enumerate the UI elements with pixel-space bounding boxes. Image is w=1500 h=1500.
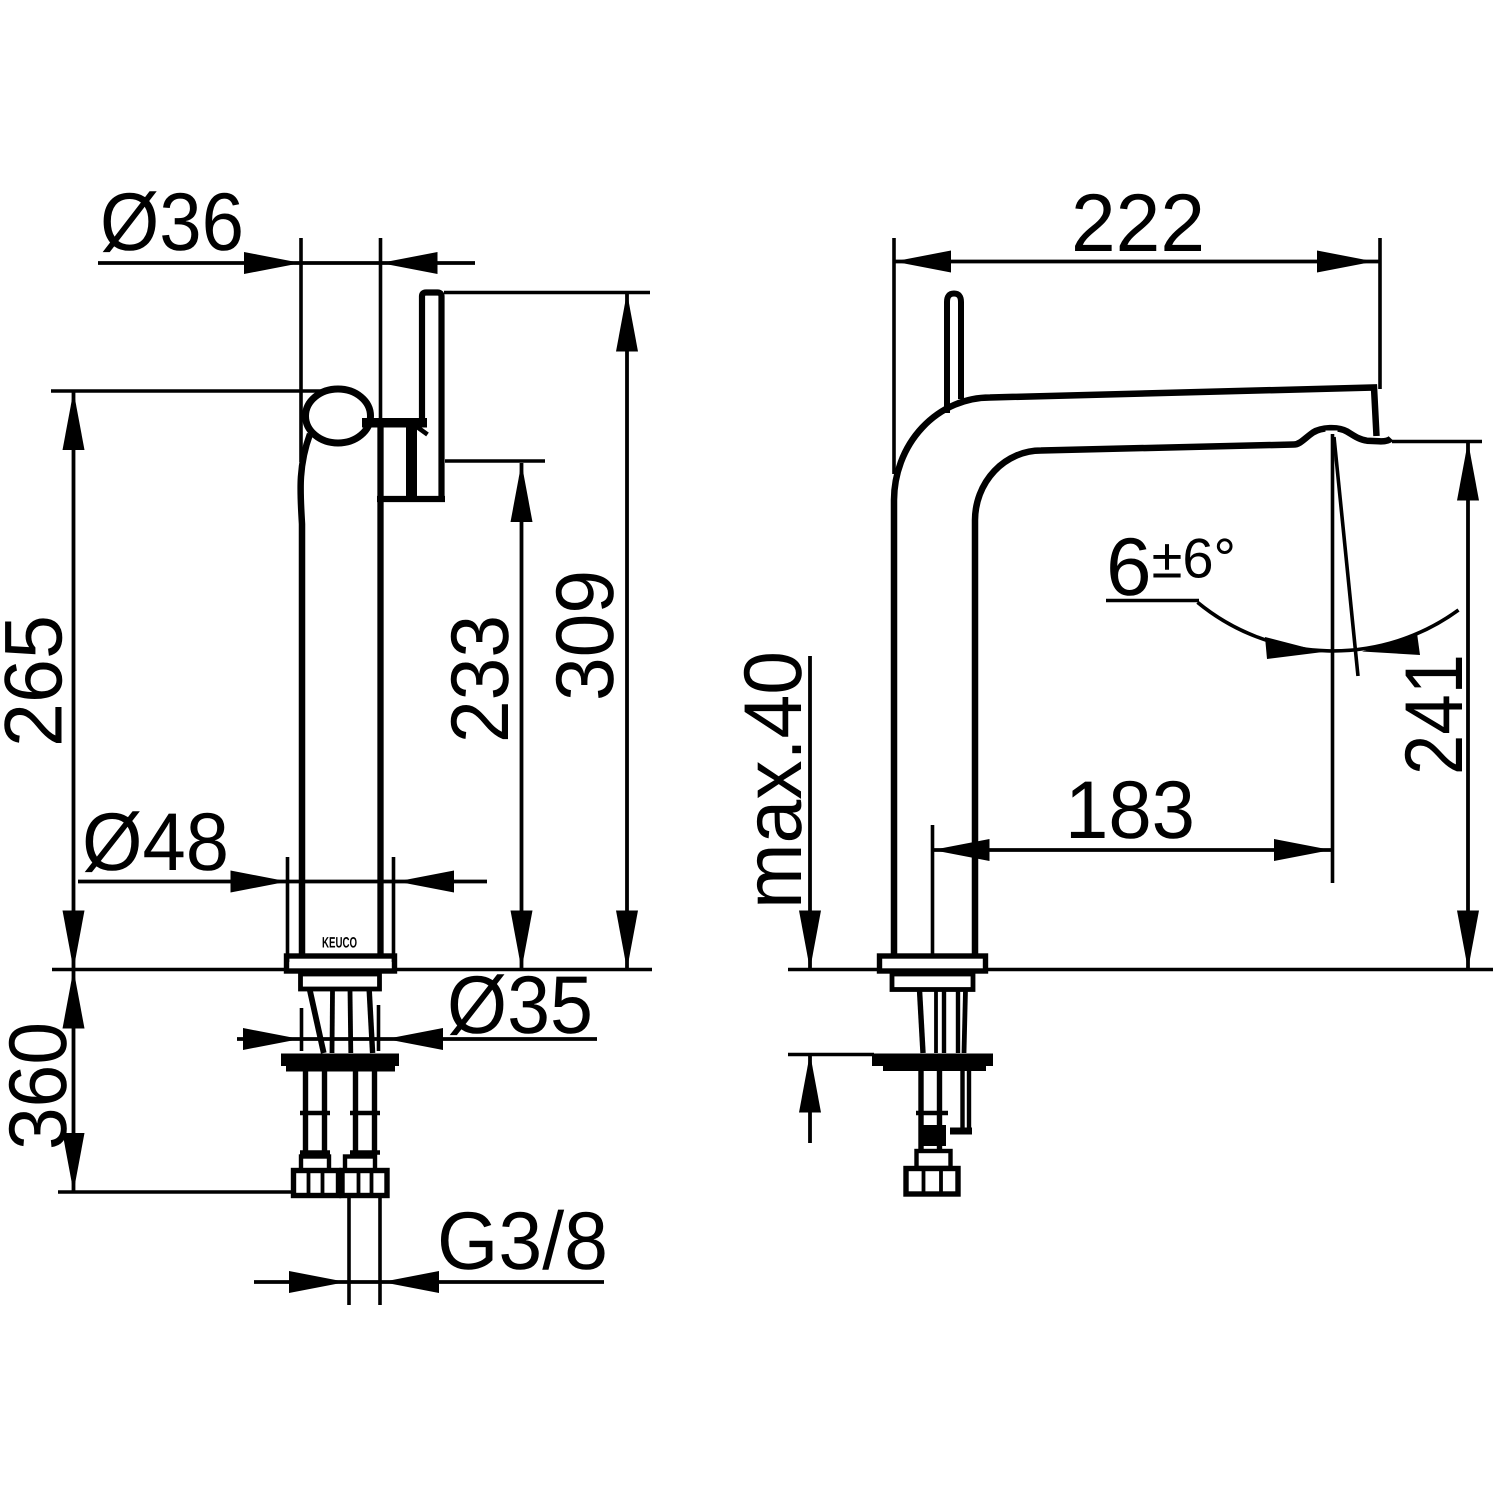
svg-text:G3/8: G3/8	[437, 1196, 608, 1287]
svg-text:Ø48: Ø48	[82, 797, 229, 888]
shank (side)	[920, 990, 924, 1053]
shank bar slanted left	[310, 990, 324, 1053]
dim 183 line	[933, 848, 1332, 852]
outlet slit	[1326, 431, 1338, 435]
dim 233 arrows	[511, 463, 533, 522]
lever stub (side)	[947, 294, 961, 414]
dim 265 arrows	[63, 391, 85, 450]
dim Ø35 arrows	[243, 1028, 300, 1050]
spout outer outline	[894, 388, 1377, 958]
angle arrow left	[1265, 637, 1323, 659]
dim 265 line	[72, 391, 76, 970]
right hose crimp ticks	[350, 1111, 380, 1115]
dim 241 top extension line	[1392, 440, 1482, 444]
dim G3/8 arrows	[289, 1271, 346, 1293]
dim 222 extension lines	[892, 238, 896, 474]
faucet body left edge with shoulder curve	[301, 434, 310, 959]
dim 309 line	[625, 293, 629, 970]
dim 360 extension line	[58, 1190, 293, 1194]
tilted jet line	[1334, 437, 1358, 676]
svg-text:360: 360	[0, 1022, 84, 1150]
cartridge housing bottom	[377, 496, 445, 502]
dim Ø48 arrows	[231, 871, 288, 893]
dim Ø48 line	[78, 880, 487, 884]
svg-text:183: 183	[1065, 765, 1195, 856]
lever joint diagonal	[415, 426, 428, 435]
svg-text:265: 265	[0, 615, 80, 747]
left hose tube	[303, 1071, 308, 1152]
left hose crimp ticks	[300, 1111, 330, 1115]
svg-text:309: 309	[540, 570, 631, 701]
washer (side)	[872, 1054, 993, 1067]
dim 360 line	[72, 970, 76, 1193]
dim G3/8 line	[254, 1280, 604, 1284]
base ring	[287, 956, 395, 971]
angle arc	[1198, 602, 1459, 651]
dim 309 extension line	[444, 291, 650, 295]
dim 222 line	[894, 260, 1380, 264]
faucet body right edge	[377, 426, 383, 959]
dim 222 arrows	[894, 251, 951, 273]
spout underside outline with outlet bump	[975, 428, 1391, 957]
dim 183 extension line	[931, 825, 935, 956]
right hex nut	[342, 1171, 387, 1196]
right hose tube	[353, 1071, 358, 1152]
dim 241 line	[1466, 442, 1470, 970]
svg-text:233: 233	[435, 615, 526, 743]
hose crimps (side)	[916, 1111, 948, 1115]
hose (side)	[918, 1071, 923, 1151]
dim max.40 line upper	[808, 656, 812, 970]
horseshoe washer	[281, 1054, 399, 1067]
shank bar right	[369, 990, 372, 1053]
dim 265 extension line	[51, 389, 322, 393]
dim Ø35 line	[237, 1037, 597, 1041]
dim 309 arrows	[616, 293, 638, 352]
dim Ø48 extension lines	[286, 857, 290, 962]
angle leader underline	[1106, 599, 1199, 603]
washer extension line	[788, 1053, 874, 1057]
svg-text:Ø36: Ø36	[100, 177, 244, 268]
dim 233 line	[520, 463, 524, 970]
dim 183 arrows	[933, 839, 990, 861]
svg-text:max.40: max.40	[728, 651, 819, 909]
dim Ø36 right arrow	[381, 252, 438, 274]
dim Ø36 line	[98, 261, 475, 265]
dim Ø35 extension ticks	[300, 1008, 304, 1051]
counter line (left)	[52, 968, 652, 972]
dim Ø36 extension lines	[299, 238, 303, 462]
right connector	[345, 1157, 375, 1171]
svg-text:KEUCO: KEUCO	[322, 935, 357, 952]
lever blade	[422, 293, 442, 499]
connector (side)	[917, 1151, 951, 1168]
dim 233 extension line	[445, 459, 545, 463]
left hex nut	[294, 1171, 339, 1196]
lever arm clamp	[362, 418, 427, 428]
lever blade lower dark bar	[406, 427, 417, 497]
dim Ø36 left arrow	[244, 252, 301, 274]
angle arrow right	[1362, 633, 1420, 655]
shank hose line A	[330, 990, 335, 1053]
ball joint	[306, 389, 371, 443]
dim 360 arrows	[63, 970, 85, 1029]
KEUCO logo	[322, 935, 357, 952]
dim G3/8 extension lines	[347, 1197, 351, 1305]
shank hose line B	[348, 990, 354, 1053]
base ring (side)	[880, 956, 986, 971]
outlet axis reference line	[1331, 434, 1335, 883]
svg-text:241: 241	[1389, 654, 1480, 775]
hex nut (side)	[906, 1169, 958, 1195]
left connector	[301, 1157, 329, 1171]
stud rod (side)	[960, 1071, 964, 1133]
counter line (right)	[788, 968, 1493, 972]
svg-text:222: 222	[1071, 178, 1205, 269]
mounting flange below counter	[301, 974, 380, 989]
dim max.40 line lower	[808, 1054, 812, 1144]
dim 241 arrows	[1457, 442, 1479, 501]
flange (side)	[892, 974, 973, 990]
